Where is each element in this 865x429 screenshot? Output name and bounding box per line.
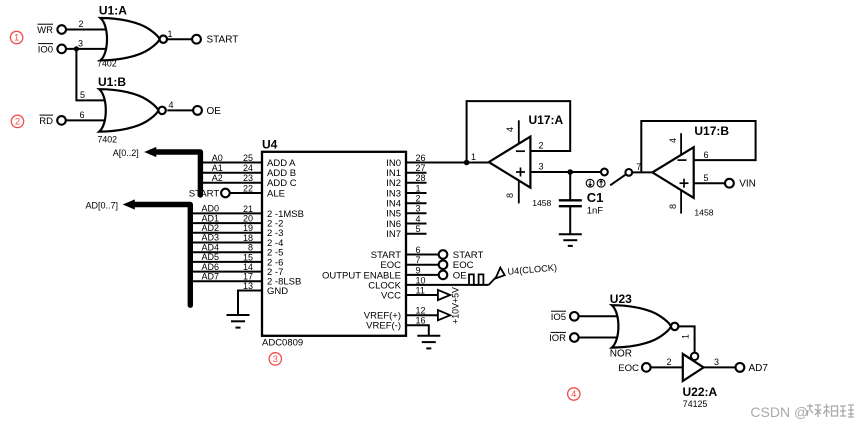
svg-text:IO0: IO0 <box>38 44 53 55</box>
svg-text:AD4: AD4 <box>202 242 220 252</box>
svg-text:AD[0..7]: AD[0..7] <box>85 200 118 210</box>
svg-text:11: 11 <box>416 285 425 295</box>
svg-text:AD3: AD3 <box>202 233 220 243</box>
svg-text:2: 2 <box>15 117 20 127</box>
svg-text:15: 15 <box>243 252 253 262</box>
svg-text:3: 3 <box>416 204 421 214</box>
svg-text:5: 5 <box>703 173 708 183</box>
svg-text:8: 8 <box>668 204 678 209</box>
svg-text:6: 6 <box>416 245 421 255</box>
svg-text:ADC0809: ADC0809 <box>262 338 303 349</box>
svg-text:5: 5 <box>416 224 421 234</box>
svg-text:U17:A: U17:A <box>529 113 564 127</box>
svg-text:AD1: AD1 <box>202 213 220 223</box>
svg-text:25: 25 <box>243 153 253 163</box>
svg-text:1458: 1458 <box>694 207 713 217</box>
svg-text:VCC: VCC <box>381 290 401 301</box>
svg-text:U17:B: U17:B <box>694 124 729 138</box>
svg-text:VREF(-): VREF(-) <box>366 321 401 332</box>
svg-text:23: 23 <box>243 173 253 183</box>
svg-text:OE: OE <box>207 106 222 117</box>
svg-text:2: 2 <box>78 19 83 29</box>
svg-text:24: 24 <box>243 163 253 173</box>
svg-text:19: 19 <box>243 223 253 233</box>
svg-text:3: 3 <box>273 354 278 364</box>
svg-text:AD6: AD6 <box>202 262 220 272</box>
svg-text:U22:A: U22:A <box>683 385 718 399</box>
svg-text:7402: 7402 <box>97 58 117 68</box>
svg-text:U1:A: U1:A <box>99 4 127 18</box>
svg-text:1nF: 1nF <box>587 206 604 217</box>
svg-text:OE: OE <box>453 270 467 281</box>
svg-text:AD2: AD2 <box>202 223 220 233</box>
svg-text:26: 26 <box>416 153 426 163</box>
svg-text:4: 4 <box>505 127 515 132</box>
svg-text:RD: RD <box>39 116 53 127</box>
svg-text:A2: A2 <box>212 173 223 183</box>
svg-text:A[0..2]: A[0..2] <box>113 148 139 158</box>
svg-text:VIN: VIN <box>739 179 756 190</box>
svg-text:START: START <box>189 188 220 199</box>
svg-text:14: 14 <box>243 262 253 272</box>
svg-text:4: 4 <box>668 138 678 143</box>
svg-text:7: 7 <box>636 162 641 172</box>
svg-text:28: 28 <box>416 173 426 183</box>
svg-text:IO5: IO5 <box>551 312 566 323</box>
svg-text:EOC: EOC <box>618 363 639 374</box>
svg-text:22: 22 <box>243 183 253 193</box>
svg-text:4: 4 <box>416 214 421 224</box>
svg-text:7402: 7402 <box>98 135 118 145</box>
svg-text:+10V+5V: +10V+5V <box>451 287 461 324</box>
svg-text:21: 21 <box>243 204 253 214</box>
svg-text:10: 10 <box>416 275 426 285</box>
svg-text:6: 6 <box>703 150 708 160</box>
svg-text:1: 1 <box>471 152 476 162</box>
svg-text:2: 2 <box>666 357 671 367</box>
svg-text:IOR: IOR <box>549 333 566 344</box>
svg-text:9: 9 <box>416 265 421 275</box>
svg-text:AD7: AD7 <box>202 272 220 282</box>
svg-text:1: 1 <box>681 334 691 339</box>
svg-text:4: 4 <box>571 389 576 399</box>
svg-text:1: 1 <box>416 183 421 193</box>
svg-text:U1:B: U1:B <box>98 75 126 89</box>
svg-text:3: 3 <box>538 162 543 172</box>
svg-text:20: 20 <box>243 214 253 224</box>
svg-text:1458: 1458 <box>532 198 551 208</box>
svg-text:74125: 74125 <box>683 399 708 409</box>
svg-text:1: 1 <box>14 33 19 43</box>
svg-text:12: 12 <box>416 306 426 316</box>
svg-text:6: 6 <box>79 110 84 120</box>
svg-text:CSDN @: CSDN @ <box>750 404 808 420</box>
svg-text:2: 2 <box>538 141 543 151</box>
svg-text:2: 2 <box>416 194 421 204</box>
svg-text:A0: A0 <box>212 153 223 163</box>
svg-text:U23: U23 <box>610 292 632 306</box>
svg-text:A1: A1 <box>212 163 223 173</box>
svg-text:7: 7 <box>416 255 421 265</box>
svg-text:GND: GND <box>267 286 288 297</box>
svg-text:ALE: ALE <box>267 188 285 199</box>
svg-text:WR: WR <box>37 25 53 36</box>
svg-text:AD5: AD5 <box>202 252 220 262</box>
svg-text:1: 1 <box>167 29 172 39</box>
svg-text:NOR: NOR <box>610 349 632 360</box>
svg-text:AD7: AD7 <box>749 363 769 374</box>
svg-text:3: 3 <box>714 357 719 367</box>
svg-text:8: 8 <box>248 243 253 253</box>
svg-text:U4: U4 <box>262 138 278 152</box>
svg-text:AD0: AD0 <box>202 204 220 214</box>
svg-text:27: 27 <box>416 163 426 173</box>
svg-text:8: 8 <box>505 193 515 198</box>
svg-text:16: 16 <box>416 316 426 326</box>
svg-text:START: START <box>207 35 239 46</box>
svg-text:5: 5 <box>80 90 85 100</box>
svg-text:13: 13 <box>243 281 253 291</box>
svg-text:3: 3 <box>78 39 83 49</box>
svg-text:4: 4 <box>168 100 173 110</box>
svg-text:C1: C1 <box>587 190 604 205</box>
svg-text:18: 18 <box>243 233 253 243</box>
svg-text:IN7: IN7 <box>386 229 401 240</box>
